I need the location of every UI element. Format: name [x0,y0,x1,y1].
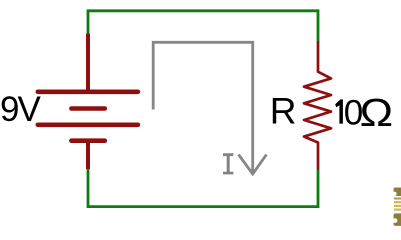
svg-text:9V: 9V [0,90,41,129]
svg-text:R: R [270,91,297,132]
svg-text:Ω: Ω [360,92,394,135]
